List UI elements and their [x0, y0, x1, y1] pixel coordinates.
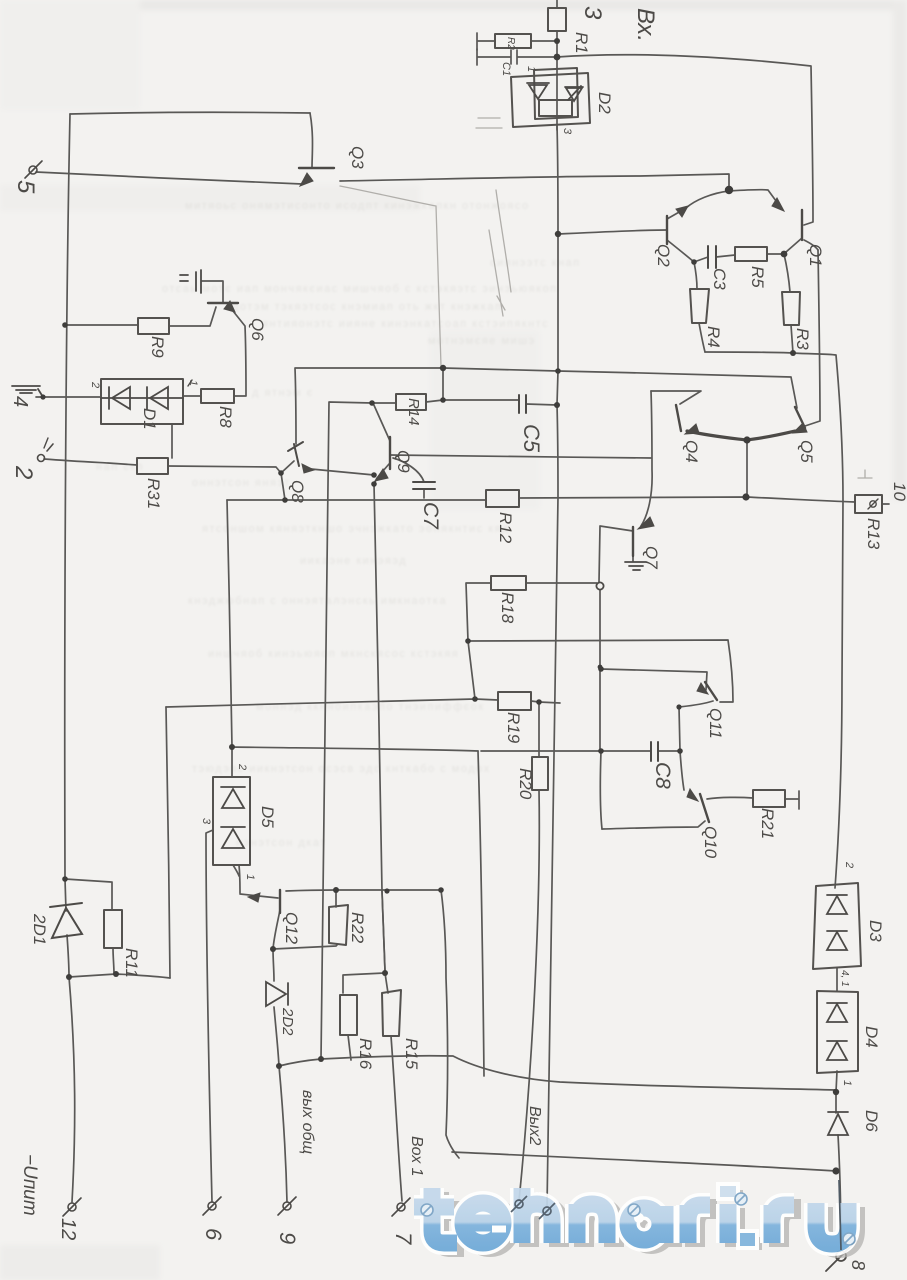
transistor Q1 emitter arrow — [772, 198, 784, 211]
resistor R21 — [753, 790, 785, 807]
terminal 10 inside R13 — [870, 501, 876, 507]
svg-text:D2: D2 — [595, 92, 614, 114]
wire long row y1060 to D4 node — [279, 1056, 836, 1090]
diode block D4 box — [817, 991, 858, 1073]
svg-text:Q12: Q12 — [282, 912, 301, 945]
wire bottom row Q10 — [602, 821, 705, 829]
svg-text:R8: R8 — [216, 406, 235, 428]
svg-text:D1: D1 — [140, 408, 159, 430]
transistor Q7 base bar — [632, 527, 634, 556]
diode D1 right — [147, 387, 168, 409]
terminal Вых2 line end over watermark — [515, 1200, 523, 1208]
transistor Q5 base bar — [795, 407, 805, 428]
wire 2D1 leads — [65, 879, 111, 977]
svg-text:Q10: Q10 — [701, 826, 720, 859]
transistor Q6 base bar — [208, 302, 238, 304]
svg-text:мотнэмєяе мишэ: мотнэмєяе мишэ — [428, 335, 536, 347]
resistor R13 — [855, 495, 882, 513]
capacitor C8 plates — [651, 742, 658, 761]
transistor Q9 emitter arrow — [375, 469, 388, 481]
svg-text:6: 6 — [201, 1228, 226, 1241]
wire row y641 to Q11 — [468, 640, 733, 702]
wire 2D2 chain — [273, 949, 279, 1066]
transistor Q9 base bar — [389, 437, 391, 469]
resistor R22 — [329, 905, 348, 945]
wire node to Q4Q5 center — [746, 440, 748, 497]
svg-text:Q11: Q11 — [706, 708, 725, 739]
diode D2 left — [527, 83, 549, 99]
wire Q12 collector — [273, 910, 280, 949]
pin tick D1 R8 — [188, 380, 192, 386]
svg-text:Q2: Q2 — [654, 244, 673, 267]
svg-text:Q6: Q6 — [248, 318, 267, 341]
svg-text:9: 9 — [275, 1232, 300, 1244]
svg-text:1: 1 — [187, 380, 199, 386]
wire D6 to terminal 8 over watermark — [839, 1180, 841, 1250]
wire R2 row with end bar — [477, 33, 557, 50]
wire Q12 base row — [240, 894, 278, 898]
svg-text:4, 1: 4, 1 — [839, 970, 850, 987]
thick emitter wire Q4 Q5 — [687, 431, 795, 440]
transistor Q11 emitter arrow — [697, 683, 708, 694]
svg-text:2: 2 — [843, 861, 855, 868]
wire C7 leads — [393, 458, 424, 498]
resistor R2 — [495, 34, 531, 48]
wire R14 row — [321, 368, 443, 1059]
svg-text:Q1: Q1 — [806, 244, 825, 267]
svg-text:1: 1 — [841, 1080, 853, 1086]
capacitor C5 plates — [519, 395, 526, 413]
wire R31 to Q8 — [168, 466, 281, 473]
svg-text:R9: R9 — [148, 336, 167, 358]
resistor R12 — [486, 490, 519, 507]
svg-text:12: 12 — [57, 1218, 79, 1240]
diode D2 right — [565, 86, 583, 101]
terminal 6 — [208, 1202, 216, 1210]
wire Q9 emitter down — [374, 464, 389, 484]
svg-text:R21: R21 — [758, 808, 777, 839]
svg-text:1: 1 — [525, 66, 537, 72]
transistor Q2 emitter arrow — [676, 206, 688, 217]
terminal trunk line end over watermark — [543, 1207, 551, 1215]
transistor Q11 base bar — [705, 682, 717, 700]
wire ground4 to D1 — [36, 396, 101, 398]
svg-text:D4: D4 — [862, 1026, 881, 1048]
svg-text:R4: R4 — [704, 326, 723, 348]
resistor R16 — [340, 995, 357, 1035]
transistor Q12 base bar — [279, 890, 281, 913]
svg-text:Вох 1: Вох 1 — [408, 1136, 425, 1177]
svg-text:д ятнэм є: д ятнэм є — [252, 387, 314, 399]
ground at Q7 — [625, 562, 646, 570]
svg-text:8: 8 — [848, 1260, 868, 1270]
wire R20 leads and long drop — [519, 702, 539, 1201]
wire Q7 ground stem — [632, 552, 634, 561]
wire D5 bottom to Q12 — [233, 865, 240, 893]
wire Q6 emitter down to R8 — [233, 311, 246, 396]
wire D2 bottom to trunk node — [557, 126, 558, 234]
watermark tehnari.ru — [414, 1182, 855, 1250]
transistor Q2 base bar — [666, 216, 668, 244]
svg-text:R16: R16 — [356, 1038, 375, 1070]
diode block D5 box — [213, 777, 250, 865]
wire Q12 top row to terminal 7 — [286, 890, 459, 1158]
wire Q4 collector loop — [651, 391, 701, 404]
capacitor above Q6 — [180, 270, 201, 293]
svg-text:2D1: 2D1 — [30, 913, 49, 945]
svg-text:кнэджюбнап с оннэяталэнскь имк: кнэджюбнап с оннэяталэнскь имкнаотка — [188, 595, 447, 607]
svg-text:ятсоншом кяняэткншо эчнэжкато: ятсоншом кяняэткншо эчнэжкато эонякнтис … — [202, 523, 510, 535]
diode D5 lower — [221, 827, 245, 848]
resistor R18 — [491, 576, 526, 590]
screw circles on watermark — [421, 1204, 433, 1216]
terminal 12 — [68, 1203, 76, 1211]
wire Q7 collector to left vertical — [599, 526, 633, 829]
resistor R19 — [498, 692, 531, 710]
terminal 5 — [29, 166, 37, 174]
svg-text:D3: D3 — [866, 920, 885, 942]
wire Q8 collector / junction — [281, 461, 294, 500]
svg-text:4: 4 — [9, 396, 31, 407]
svg-text:−Uпит: −Uпит — [19, 1154, 40, 1216]
svg-text:3: 3 — [200, 818, 212, 825]
svg-text:R19: R19 — [504, 712, 523, 744]
wire R16 leads — [343, 973, 385, 1060]
svg-text:иикаэне кинэяэд: иикаэне кинэяэд — [300, 555, 407, 567]
wire terminal5 to Q3 — [36, 172, 302, 184]
svg-text:C3: C3 — [710, 268, 729, 290]
transistor Q4 base bar — [676, 405, 681, 431]
svg-text:C7: C7 — [419, 502, 442, 530]
wire D5 pin3 to terminal 6 — [206, 830, 213, 1202]
wire long vertical Q9 to R15 top — [374, 484, 385, 971]
wire y497 row left — [227, 499, 486, 501]
svg-text:митяоьс онямэтисонто исодпт ки: митяоьс онямэтисонто исодпт кинэжкапкн о… — [185, 200, 530, 212]
svg-text:R1: R1 — [572, 32, 591, 54]
wire Q3 to diff pair node — [340, 174, 729, 190]
diode D6 — [828, 1112, 848, 1135]
svg-text:R3: R3 — [793, 328, 812, 350]
transistor Q1 base bar — [801, 210, 803, 240]
transistor Q6 emitter arrow — [224, 301, 235, 312]
faint wire Q3 to x442 corner — [340, 186, 441, 366]
wire right trunk y353 to D3 — [705, 352, 843, 888]
resistor R8 — [201, 389, 234, 403]
wire R18 leads — [466, 583, 597, 641]
svg-text:Вых2: Вых2 — [526, 1106, 543, 1145]
svg-text:2: 2 — [89, 381, 101, 388]
diode block D2 outer box — [511, 73, 590, 127]
wire Q2 collector — [667, 240, 694, 262]
resistor R11 — [104, 910, 122, 948]
svg-text:Q5: Q5 — [797, 440, 816, 463]
svg-text:C1: C1 — [500, 62, 512, 76]
diode block D1 box — [101, 379, 183, 424]
svg-text:10: 10 — [890, 482, 907, 501]
wire terminal2 to R31 — [44, 459, 137, 465]
wire left rect top — [70, 112, 310, 114]
diode D5 upper — [221, 787, 245, 808]
wire Q10 collector to R21 — [707, 791, 799, 809]
transistor Q3 emitter arrow — [300, 173, 313, 186]
svg-text:R31: R31 — [144, 478, 163, 509]
wire corner down to long row — [478, 751, 484, 1076]
svg-text:Q9: Q9 — [394, 450, 413, 473]
faint pencil squiggles — [476, 118, 511, 316]
terminal 9 — [283, 1202, 291, 1210]
wire long row y368 to Q5 base — [295, 368, 797, 444]
svg-text:Q3: Q3 — [348, 146, 367, 169]
wire C3 R5 row — [694, 254, 784, 262]
transistor Q4 emitter arrow — [685, 424, 699, 434]
transistor Q10 base bar — [700, 794, 709, 822]
svg-text:D5: D5 — [258, 806, 277, 828]
wire Q6 collector cap — [202, 281, 223, 303]
svg-text:дотэм тэкяэтсос кнэмиап оть жк: дотэм тэкяэтсос кнэмиап оть жкт кнэжкап — [232, 301, 502, 313]
diode D4 upper — [827, 1003, 847, 1022]
wire 2D1 R11 bottom row — [69, 974, 170, 978]
wire C5 row — [443, 400, 557, 405]
transistor Q10 emitter arrow — [687, 789, 698, 801]
resistor R31 — [137, 458, 168, 474]
svg-text:7: 7 — [391, 1232, 416, 1245]
terminal 2 — [38, 455, 45, 462]
capacitor C3 plates — [708, 246, 716, 268]
diode 2D1 — [50, 903, 82, 938]
svg-text:R14: R14 — [405, 398, 422, 426]
diode 2D2 — [266, 982, 288, 1006]
svg-text:Q7: Q7 — [642, 546, 661, 569]
svg-text:R12: R12 — [496, 512, 515, 544]
svg-text:янтияонэтс иияне кинэнкатсоап: янтияонэтс иияне кинэнкатсоап кстэипякнт… — [262, 318, 549, 330]
diode D3 upper — [827, 895, 847, 914]
faint tick above R13 — [858, 470, 872, 478]
wire R9 row — [65, 307, 216, 326]
node ring at Q7 collector — [596, 582, 603, 589]
wire terminal 12 — [69, 977, 75, 1202]
wire top feed to R1 — [556, 0, 558, 130]
resistor R5 — [735, 247, 767, 261]
resistor R14 — [396, 394, 426, 410]
svg-text:Q4: Q4 — [682, 440, 701, 463]
svg-text:R5: R5 — [748, 266, 767, 288]
transistor Q3 base bar — [299, 167, 334, 169]
resistor R1 — [548, 8, 566, 31]
svg-text:3: 3 — [579, 6, 606, 20]
terminal 7 — [397, 1203, 405, 1211]
svg-text:Q8: Q8 — [288, 480, 307, 503]
wire long row y1160 — [452, 1152, 836, 1171]
svg-text:2: 2 — [10, 465, 37, 479]
svg-text:Вх.: Вх. — [632, 8, 659, 42]
svg-text:R11: R11 — [122, 948, 141, 978]
svg-text:2D2: 2D2 — [279, 1007, 296, 1036]
capacitor C7 plates — [413, 482, 435, 489]
wire Q1 emitter branch — [729, 190, 779, 205]
wire row y669 to Q11 emitter — [601, 669, 707, 690]
svg-text:C8: C8 — [651, 762, 674, 789]
transistor Q5 emitter arrow — [793, 423, 807, 433]
pin tick terminal2 — [44, 438, 48, 448]
wire row y747 to corner — [232, 747, 478, 751]
wire Q2 base long — [558, 230, 667, 234]
capacitor C1 row — [477, 49, 557, 65]
diode block D3 box — [813, 883, 861, 969]
wire D1 pin3 down — [171, 424, 173, 458]
wire Q3 collector — [310, 113, 313, 168]
transistor Q7 emitter arrow — [638, 517, 654, 529]
svg-text:3: 3 — [561, 128, 573, 135]
wire C8 row left extension — [481, 750, 601, 752]
svg-text:2: 2 — [236, 763, 248, 770]
wire left bottom vertical x166 — [166, 707, 170, 978]
wire R11 leads — [112, 882, 114, 974]
wire R3 leads — [784, 254, 793, 353]
resistor R4 — [690, 289, 709, 323]
wire Q8 emitter to Q9 base — [311, 469, 374, 475]
wire R19 row — [166, 641, 560, 707]
wire Q9 collector — [373, 403, 390, 441]
diode D3 lower — [827, 931, 847, 950]
svg-text:R22: R22 — [348, 912, 367, 944]
wire vertical x232 to D5 — [227, 500, 232, 777]
svg-text:C5: C5 — [519, 424, 544, 453]
wire R22 leads — [273, 890, 337, 949]
wire Q2 emitter to node — [667, 191, 729, 219]
svg-text:иншчяоб кинэьюяоп мкнскясос кс: иншчяоб кинэьюяоп мкнскясос кстэкяя — [208, 648, 459, 660]
diode block D2 inner box — [534, 68, 578, 119]
wire Q11 collector down — [679, 701, 713, 790]
wire C8 leads — [601, 750, 680, 752]
wire R15 leads — [385, 973, 402, 1201]
wire R13 terminal link — [882, 503, 889, 505]
node dots — [554, 38, 560, 44]
diode D1 left — [101, 387, 183, 409]
wire vertical x387 — [382, 891, 385, 971]
diode block D2 lower box — [539, 100, 572, 116]
transistor Q8 base bar — [288, 442, 303, 466]
wire terminal 9 — [279, 1066, 287, 1202]
svg-text:оннэтсон яняэт: оннэтсон яняэт — [192, 477, 291, 489]
wire R4 leads — [694, 262, 705, 352]
wire Q5 collector — [805, 250, 820, 426]
wire long top right to Q1 base — [557, 55, 813, 225]
svg-text:R20: R20 — [516, 768, 535, 800]
resistor R15 — [382, 990, 401, 1036]
svg-text:5: 5 — [12, 180, 39, 194]
wire Q9 row y455 — [390, 455, 651, 458]
wire left tall rect vertical — [65, 114, 70, 879]
svg-text:R13: R13 — [864, 518, 883, 550]
svg-text:сиянээтс кнап: сиянээтс кнап — [490, 257, 581, 269]
svg-text:1: 1 — [244, 874, 256, 880]
resistor R3 — [782, 292, 800, 325]
diode D4 lower — [827, 1041, 847, 1060]
wire y497 row right to R13 — [519, 497, 855, 502]
svg-text:D6: D6 — [862, 1110, 881, 1132]
wire trunk down page — [547, 234, 558, 1207]
transistor Q12 emitter arrow — [248, 893, 260, 902]
terminal 8 — [836, 1251, 846, 1261]
wire Q1 collector — [786, 238, 818, 252]
svg-text:R15: R15 — [402, 1038, 421, 1070]
transistor Q8 emitter arrow — [302, 464, 314, 473]
resistor R20 — [532, 757, 548, 790]
ground terminal 4 — [12, 386, 43, 397]
wire D3-D4-D6 chain — [836, 968, 841, 1252]
svg-text:R2: R2 — [505, 37, 516, 50]
wire Q4 loop down to Q7 — [641, 391, 652, 526]
svg-text:вых общ: вых общ — [299, 1090, 316, 1154]
wire R8 to D1 — [183, 395, 201, 397]
resistor R9 — [138, 318, 169, 334]
svg-text:R18: R18 — [498, 592, 517, 624]
